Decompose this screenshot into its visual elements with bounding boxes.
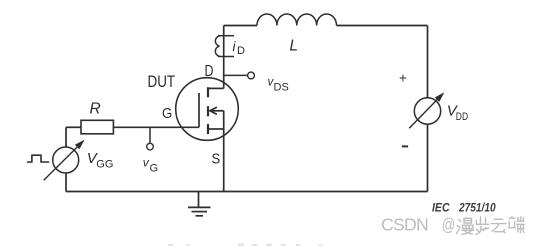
transistor DUT mosfet [176,78,239,141]
gate bar [198,93,200,127]
source V_GG arrow [44,140,84,180]
svg-text:S: S [212,151,221,168]
svg-text:D: D [237,45,245,57]
svg-text:GG: GG [96,159,113,171]
svg-text:DD: DD [456,111,468,123]
terminal v_DS circle [248,72,255,79]
ground [188,192,211,216]
wire v_G stub [149,127,151,143]
svg-text:+: + [399,71,407,86]
wire gate row left of resistor [66,126,81,128]
resistor R [81,120,113,134]
wire gate row right of resistor [113,126,199,128]
svg-text:@: @ [442,215,456,235]
svg-text:IEC: IEC [432,201,450,215]
char yun (cloud) [491,219,506,232]
svg-text:2751/10: 2751/10 [458,201,496,215]
minus polarity label [402,145,408,147]
wire source vertical [223,129,225,192]
svg-text:i: i [233,39,237,54]
pulse symbol [27,155,49,162]
wire left rail lower [65,173,67,192]
svg-text:L: L [290,38,299,55]
wire bottom [66,191,428,193]
drain link [208,87,224,89]
channel drain contact [207,87,209,97]
svg-text:G: G [162,105,172,122]
svg-text:DUT: DUT [148,73,176,91]
body arrowhead open V [210,107,217,114]
source V_DD arrow [409,93,444,129]
current probe i_D [215,36,234,57]
svg-text:D: D [205,63,214,80]
char bu (step) [476,217,489,235]
char duan [508,216,524,232]
inductor L [257,14,337,25]
svg-text:R: R [90,101,101,118]
bottom cropped caption fragment [168,244,323,246]
body arrow line [210,110,224,112]
terminal v_G circle [147,143,154,150]
channel source contact [207,124,209,134]
wire right rail lower [427,124,429,191]
svg-text:G: G [150,163,159,175]
wire top from inductor to right rail [337,25,428,27]
body-source vertical [223,111,225,129]
wire right rail upper [427,26,429,98]
wire drain vertical [223,26,225,89]
wire top from drain corner to inductor [224,25,257,27]
wire v_DS stub [224,74,248,76]
source link [208,128,224,130]
char man (3rd water radical + right part) [457,218,474,234]
wire left rail upper [65,127,67,147]
channel body contact [207,106,209,116]
svg-text:CSDN: CSDN [381,215,428,235]
source V_GG circle [53,147,79,173]
svg-text:DS: DS [274,82,289,94]
source V_DD circle [414,98,440,124]
watermark chinese characters [457,216,525,234]
mosfet body circle [176,78,239,141]
